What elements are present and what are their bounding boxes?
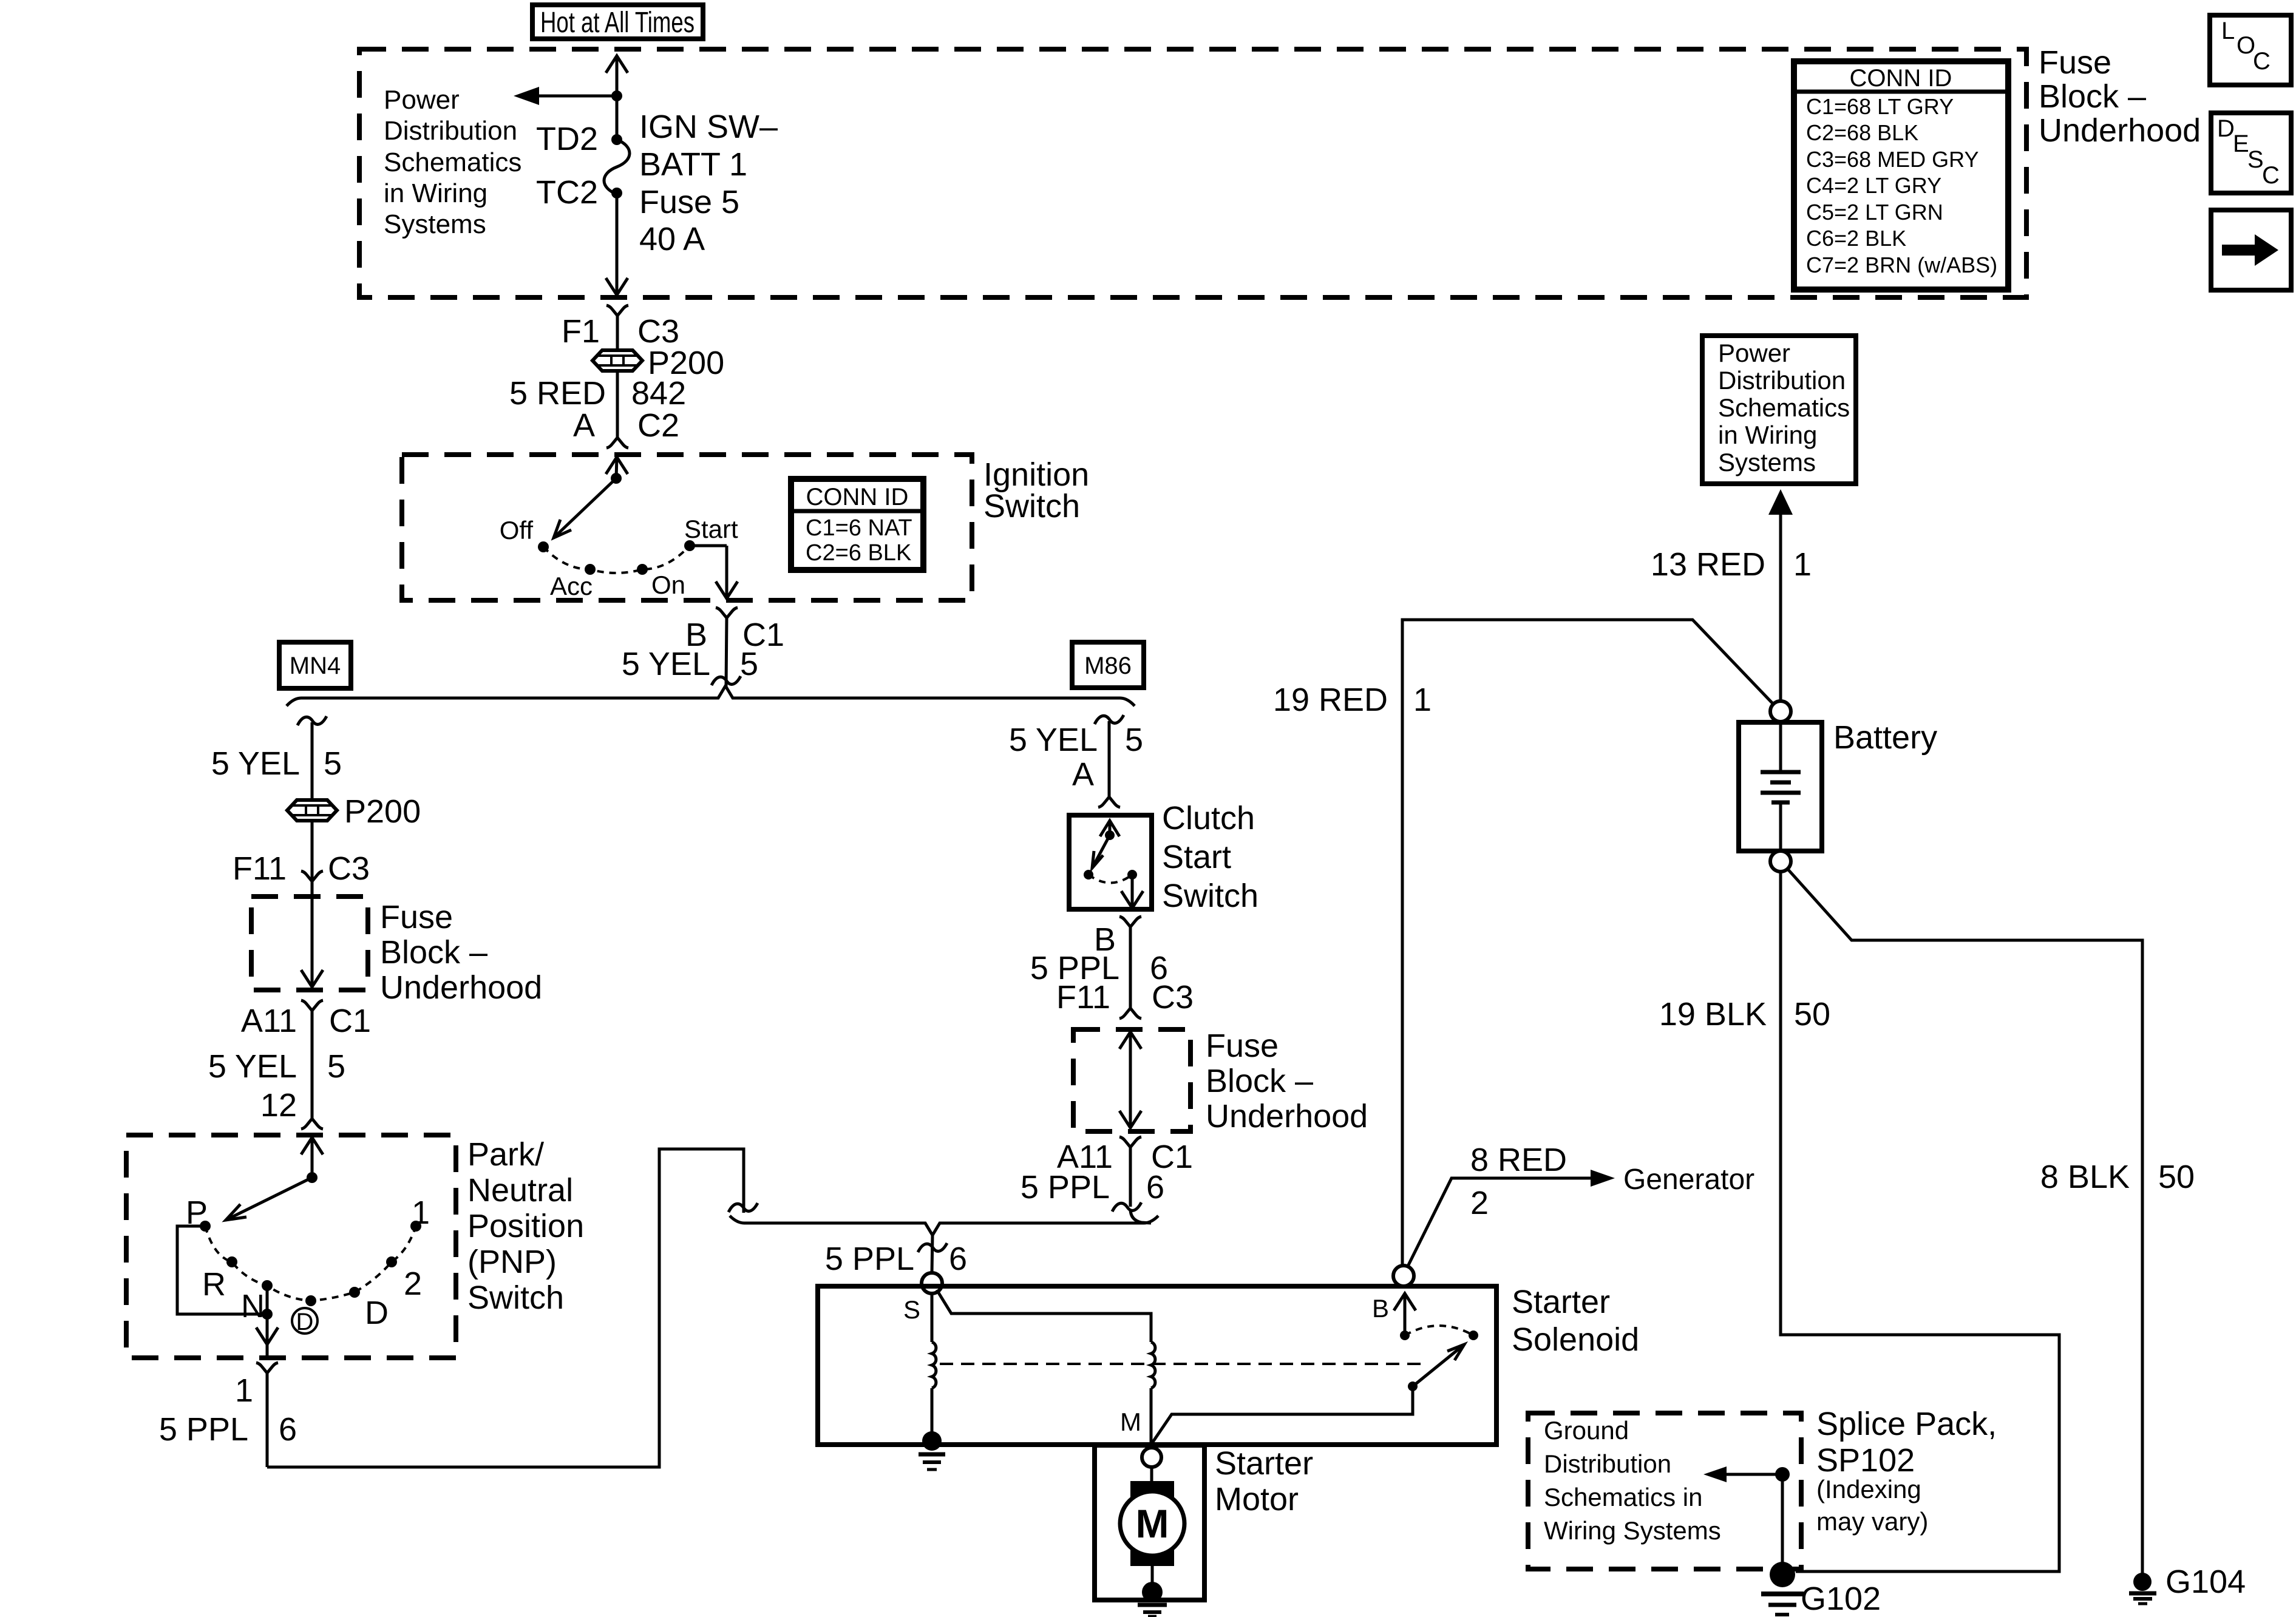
svg-text:Start: Start <box>1162 839 1231 875</box>
wire: fuse to fuse block edge (down chevron) <box>606 194 628 295</box>
svg-text:Starter: Starter <box>1512 1284 1610 1320</box>
connector tag: Hot at All Times <box>532 5 703 39</box>
wire 19 RED: solenoid B up and over to battery <box>1402 620 1773 1266</box>
connector B (female half) below clutch switch <box>1119 917 1141 1008</box>
label: Fuse Block - Underhood <box>2039 44 2201 149</box>
svg-text:C7=2 BRN (w/ABS): C7=2 BRN (w/ABS) <box>1806 253 1997 277</box>
svg-text:Ignition: Ignition <box>983 456 1089 493</box>
svg-text:S: S <box>2247 146 2264 173</box>
connector B / C1 (female half) below ignition switch <box>712 608 741 686</box>
svg-text:5 YEL: 5 YEL <box>1009 722 1098 758</box>
wire: N contact down and exit arrow <box>256 1286 278 1358</box>
wire: M86 branch with tilde <box>1095 715 1124 797</box>
svg-text:C5=2 LT GRN: C5=2 LT GRN <box>1806 200 1943 225</box>
wire: coil to M terminal <box>1150 1388 1153 1443</box>
harness tag MN4 <box>279 642 351 688</box>
svg-text:Start: Start <box>684 515 738 543</box>
svg-text:C3: C3 <box>637 313 679 350</box>
svg-text:Hot at All Times: Hot at All Times <box>540 7 695 39</box>
clutch switch: entry arrow and pivot <box>1100 821 1119 840</box>
ignition switch: pivot node <box>611 473 622 484</box>
PNP lever arm to P <box>226 1178 312 1220</box>
svg-text:Underhood: Underhood <box>380 969 542 1006</box>
svg-text:C2=6 BLK: C2=6 BLK <box>806 540 911 566</box>
wire: P contact jumper to N output <box>177 1226 267 1314</box>
svg-text:A11: A11 <box>241 1003 297 1039</box>
svg-text:Block –: Block – <box>380 934 487 971</box>
label: Clutch Start Switch <box>1162 800 1258 914</box>
svg-text:Clutch: Clutch <box>1162 800 1255 836</box>
PNP contact N <box>262 1280 273 1291</box>
wire 13 RED: battery to power distribution (filled arrow) <box>1768 489 1793 701</box>
svg-text:C3: C3 <box>328 850 370 887</box>
svg-text:G102: G102 <box>1801 1581 1881 1617</box>
PNP contact 1 <box>410 1221 421 1232</box>
wire: PNP branch run to solenoid brace <box>267 1149 758 1467</box>
svg-text:8 RED: 8 RED <box>1470 1142 1567 1178</box>
CONN ID table (fuse block underhood) <box>1794 61 2008 290</box>
svg-text:CONN ID: CONN ID <box>806 484 909 510</box>
starter motor box <box>1095 1445 1204 1600</box>
svg-text:6: 6 <box>949 1241 967 1277</box>
wire: M to plunger contact <box>1152 1386 1413 1443</box>
svg-text:Distribution: Distribution <box>1544 1449 1671 1478</box>
svg-text:Battery: Battery <box>1833 719 1937 756</box>
ground G104 <box>2129 1573 2156 1604</box>
svg-text:Fuse: Fuse <box>2039 44 2111 81</box>
svg-text:R: R <box>202 1266 226 1303</box>
splice pack feed arrow <box>1703 1466 1782 1482</box>
PNP contact 2 <box>386 1256 397 1267</box>
label: Ignition Switch <box>983 456 1089 524</box>
svg-text:Distribution: Distribution <box>384 116 517 146</box>
svg-text:5: 5 <box>324 745 342 782</box>
svg-text:F1: F1 <box>562 313 600 350</box>
solenoid ground node <box>919 1431 945 1470</box>
PNP detent dashed arc <box>205 1226 416 1301</box>
power distribution schematics box (battery) <box>1702 336 1856 484</box>
svg-text:C2=68 BLK: C2=68 BLK <box>1806 120 1918 145</box>
svg-text:Block –: Block – <box>2039 78 2146 115</box>
connector 1 (female half) below PNP <box>256 1363 278 1467</box>
fuse block #2 dashed box <box>1073 1029 1190 1131</box>
wire: feed from Hot at All Times into fuse block (up chevron) <box>606 56 628 96</box>
terminal B (ring) <box>1393 1266 1414 1286</box>
svg-text:Distribution: Distribution <box>1718 366 1846 395</box>
svg-text:CONN ID: CONN ID <box>1850 65 1952 92</box>
svg-text:D: D <box>365 1295 389 1331</box>
splice P200 (lens symbol) <box>593 350 642 371</box>
wire: junction down to fuse <box>616 96 619 140</box>
wire: clutch exit arrow <box>1121 875 1143 908</box>
solenoid hold-in coil (right) <box>1151 1342 1155 1388</box>
svg-text:Splice Pack,: Splice Pack, <box>1816 1406 1997 1442</box>
PNP entry arrow <box>301 1137 323 1178</box>
svg-text:BATT 1: BATT 1 <box>639 146 747 183</box>
clutch detent dashed arc <box>1089 875 1132 883</box>
svg-text:1: 1 <box>1793 546 1812 583</box>
svg-text:SP102: SP102 <box>1816 1442 1915 1479</box>
ignition detent dashed arc <box>543 546 690 573</box>
svg-text:5: 5 <box>1125 722 1143 758</box>
svg-text:Starter: Starter <box>1215 1445 1313 1482</box>
terminal M (ring) <box>1142 1448 1161 1467</box>
wire 5 RED 842 <box>616 371 619 438</box>
connector F11 / C3 (female half) <box>301 871 323 897</box>
connector A11 / C1 (female half) <box>301 1000 323 1119</box>
note: Power Distribution Schematics in Wiring Systems <box>384 85 521 239</box>
svg-text:G104: G104 <box>2165 1564 2246 1600</box>
svg-text:Schematics: Schematics <box>384 147 521 177</box>
wire inside fuse block #1 (down arrow) <box>301 897 323 987</box>
svg-text:C3: C3 <box>1152 979 1194 1015</box>
svg-text:Underhood: Underhood <box>2039 112 2201 149</box>
ignition switch: lever arm to Off <box>554 478 616 538</box>
svg-text:40 A: 40 A <box>639 221 705 257</box>
svg-text:Power: Power <box>1718 339 1790 367</box>
svg-text:C1=6 NAT: C1=6 NAT <box>806 515 912 541</box>
svg-text:N: N <box>241 1288 265 1324</box>
node: junction to power distribution <box>611 90 622 101</box>
wire inside fuse block #2 (up and down arrows) <box>1119 1032 1141 1128</box>
PNP contact OD <box>305 1295 316 1306</box>
svg-text:842: 842 <box>631 375 686 412</box>
svg-text:M: M <box>1120 1408 1141 1436</box>
label: Starter Motor <box>1215 1445 1313 1517</box>
svg-text:2: 2 <box>404 1266 422 1302</box>
svg-text:1: 1 <box>235 1372 253 1409</box>
connector A / C2 (male half) <box>606 438 628 448</box>
svg-text:Fuse: Fuse <box>1206 1028 1279 1064</box>
svg-text:C1=68 LT GRY: C1=68 LT GRY <box>1806 94 1954 119</box>
svg-text:M86: M86 <box>1084 653 1132 679</box>
ground distribution dashed box <box>1528 1413 1801 1569</box>
svg-text:E: E <box>2233 131 2249 157</box>
svg-text:Ground: Ground <box>1544 1416 1629 1445</box>
ignition contact Off <box>538 541 549 552</box>
harness tag M86 <box>1072 642 1144 688</box>
label: Fuse Block - Underhood (left) <box>380 899 542 1006</box>
battery terminal + (ring) <box>1770 701 1791 722</box>
solenoid moving contact arm <box>1413 1344 1464 1386</box>
fuse: IGN SW-BATT 1 Fuse 5 40 A <box>604 134 630 198</box>
svg-text:C: C <box>2253 48 2271 75</box>
mechanical link dashed line <box>940 1363 1427 1365</box>
svg-text:5 PPL: 5 PPL <box>825 1241 914 1277</box>
PNP contact D <box>349 1287 360 1298</box>
PNP output node <box>262 1309 273 1320</box>
PNP pivot node <box>307 1172 318 1183</box>
splice node SP102 <box>1775 1467 1790 1575</box>
svg-text:in Wiring: in Wiring <box>384 178 487 208</box>
svg-text:5: 5 <box>740 646 758 682</box>
svg-text:Wiring Systems: Wiring Systems <box>1544 1516 1721 1545</box>
wire: Start contact to C1 exit (down chevron) <box>690 546 738 598</box>
battery terminal - (ring) <box>1770 851 1791 872</box>
svg-text:Acc: Acc <box>550 572 593 600</box>
svg-text:A: A <box>1072 756 1094 793</box>
ignition contact Acc <box>585 564 596 575</box>
svg-text:5 RED: 5 RED <box>509 375 606 412</box>
svg-text:19 RED: 19 RED <box>1273 682 1388 718</box>
svg-text:5 YEL: 5 YEL <box>622 646 710 682</box>
svg-text:D: D <box>2217 115 2235 142</box>
svg-text:C4=2 LT GRY: C4=2 LT GRY <box>1806 173 1941 198</box>
note: Ground Distribution Schematics in Wiring Systems <box>1544 1416 1721 1545</box>
label: Splice Pack, SP102 (Indexing may vary) <box>1816 1406 1997 1536</box>
connector A (male half) at clutch switch <box>1098 797 1120 807</box>
svg-text:50: 50 <box>2158 1159 2195 1195</box>
wire: P200 to fuse block #1 <box>311 821 314 881</box>
label circled D <box>292 1308 318 1335</box>
svg-text:6: 6 <box>279 1411 297 1448</box>
clutch start switch box <box>1069 815 1152 909</box>
svg-text:5 YEL: 5 YEL <box>211 745 300 782</box>
forward arrow nav box <box>2211 210 2291 290</box>
wire: tilde and hook into brace right end <box>1112 1202 1151 1223</box>
svg-text:2: 2 <box>1470 1185 1489 1221</box>
CONN ID table (ignition switch) <box>791 479 923 570</box>
solenoid contact dashed arc <box>1405 1326 1473 1335</box>
svg-text:L: L <box>2221 18 2235 44</box>
svg-text:Neutral: Neutral <box>467 1172 573 1209</box>
svg-text:MN4: MN4 <box>290 653 341 679</box>
splice brace merging into starter solenoid S <box>730 1216 1158 1235</box>
svg-text:50: 50 <box>1794 996 1830 1032</box>
svg-text:Underhood: Underhood <box>1206 1098 1368 1134</box>
battery cell symbol <box>1761 722 1801 851</box>
svg-text:5: 5 <box>327 1048 345 1085</box>
svg-text:Off: Off <box>500 516 534 544</box>
svg-text:TD2: TD2 <box>536 121 598 157</box>
svg-text:(PNP): (PNP) <box>467 1244 557 1280</box>
svg-text:F11: F11 <box>1056 979 1110 1015</box>
splice P200 (second, lens symbol) <box>287 800 337 821</box>
wire: arrow to power distribution schematics (left) <box>514 87 617 105</box>
svg-text:P200: P200 <box>344 793 421 830</box>
wire: MN4 branch with tilde <box>297 716 327 800</box>
fuse block underhood dashed box <box>359 49 2026 297</box>
ignition contact On <box>637 564 648 575</box>
wire 19 BLK: battery negative to G102 <box>1781 872 2059 1571</box>
svg-text:Motor: Motor <box>1215 1481 1299 1517</box>
svg-text:B: B <box>1372 1294 1389 1323</box>
PNP contact P <box>200 1221 211 1232</box>
svg-text:IGN SW–: IGN SW– <box>639 109 778 145</box>
svg-text:may vary): may vary) <box>1816 1507 1928 1536</box>
ignition contact Start <box>684 540 695 551</box>
svg-text:Fuse: Fuse <box>380 899 453 935</box>
PNP switch dashed box <box>126 1135 456 1358</box>
svg-text:Switch: Switch <box>1162 878 1258 914</box>
LOC nav box <box>2210 15 2291 85</box>
svg-text:Schematics: Schematics <box>1718 393 1850 422</box>
ground G102 <box>1761 1562 1804 1615</box>
connector F1 / C3 <box>606 305 628 351</box>
svg-text:Park/: Park/ <box>467 1136 544 1173</box>
svg-text:C2: C2 <box>637 407 679 444</box>
svg-text:Schematics in: Schematics in <box>1544 1483 1702 1511</box>
svg-text:in Wiring: in Wiring <box>1718 421 1817 449</box>
label: Park/Neutral Position (PNP) Switch <box>467 1136 584 1316</box>
svg-text:1: 1 <box>412 1195 430 1231</box>
svg-text:Power: Power <box>384 85 460 115</box>
svg-text:Systems: Systems <box>1718 448 1816 476</box>
PNP contact R <box>226 1256 237 1267</box>
splice brace to MN4 and M86 branches <box>287 686 1135 706</box>
svg-text:5 PPL: 5 PPL <box>159 1411 248 1448</box>
solenoid contact lower <box>1408 1381 1418 1391</box>
wire: B terminal into box (up arrow) <box>1394 1293 1416 1335</box>
wire 8 RED: branch to generator <box>1407 1170 1615 1267</box>
connector A11 / C1 (female half) below fuse block #2 <box>1119 1137 1141 1207</box>
ignition switch: entry arrow <box>606 457 628 478</box>
svg-text:C1: C1 <box>329 1003 371 1039</box>
label: Starter Solenoid <box>1512 1284 1639 1358</box>
svg-text:1: 1 <box>1413 682 1432 718</box>
starter motor ground <box>1138 1582 1167 1616</box>
label: Fuse Block - Underhood (clutch branch) <box>1206 1028 1368 1134</box>
connector 12 (male half) at PNP switch <box>301 1119 323 1129</box>
svg-text:Fuse 5: Fuse 5 <box>639 184 739 220</box>
svg-text:Block –: Block – <box>1206 1063 1313 1099</box>
svg-text:6: 6 <box>1146 1169 1164 1205</box>
svg-text:13 RED: 13 RED <box>1651 546 1765 583</box>
wire: brace to S terminal with tilde <box>918 1235 947 1273</box>
clutch switch: lever arm <box>1092 835 1110 868</box>
svg-text:C: C <box>2262 162 2280 189</box>
svg-text:Position: Position <box>467 1208 584 1244</box>
svg-text:(Indexing: (Indexing <box>1816 1475 1921 1503</box>
svg-text:5 PPL: 5 PPL <box>1021 1169 1110 1205</box>
svg-text:5 YEL: 5 YEL <box>208 1048 297 1085</box>
clutch contact right <box>1127 870 1137 880</box>
starter motor symbol <box>1120 1467 1184 1583</box>
svg-text:12: 12 <box>260 1087 297 1124</box>
fuse value label <box>639 109 778 257</box>
svg-text:Switch: Switch <box>983 488 1080 524</box>
solenoid contact B side <box>1400 1331 1410 1340</box>
svg-text:On: On <box>651 571 685 599</box>
svg-text:M: M <box>1136 1501 1169 1546</box>
svg-text:Generator: Generator <box>1623 1164 1754 1196</box>
solenoid pull-in coil (left) <box>932 1293 936 1440</box>
svg-text:Systems: Systems <box>384 209 486 239</box>
svg-text:C6=2 BLK: C6=2 BLK <box>1806 226 1906 251</box>
solenoid contact right <box>1469 1331 1478 1340</box>
ignition switch dashed box <box>402 455 972 600</box>
svg-text:8 BLK: 8 BLK <box>2040 1159 2130 1195</box>
svg-text:C3=68 MED GRY: C3=68 MED GRY <box>1806 147 1978 172</box>
clutch contact left <box>1084 870 1093 880</box>
svg-text:Switch: Switch <box>467 1280 564 1316</box>
svg-text:TC2: TC2 <box>536 174 598 211</box>
fuse block #1 dashed box <box>251 897 368 990</box>
DESC nav box <box>2211 113 2291 193</box>
battery box <box>1739 722 1822 851</box>
wire 8 BLK: battery negative to G104 <box>1787 869 2142 1573</box>
svg-text:S: S <box>903 1295 920 1324</box>
starter solenoid box <box>818 1286 1496 1445</box>
svg-text:A: A <box>573 407 595 444</box>
wire: S to hold-in coil <box>937 1290 1151 1342</box>
svg-text:19 BLK: 19 BLK <box>1659 996 1767 1032</box>
svg-text:Solenoid: Solenoid <box>1512 1321 1639 1358</box>
terminal S (ring) <box>922 1273 942 1293</box>
connector F11 / C3 (male half) <box>1119 1008 1141 1019</box>
svg-text:D: D <box>296 1309 314 1335</box>
svg-text:F11: F11 <box>233 850 287 887</box>
